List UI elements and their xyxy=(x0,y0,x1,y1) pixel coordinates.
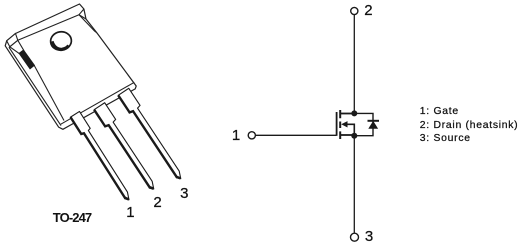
terminal 1 (gate, left circle) xyxy=(248,132,255,139)
MOSFET Q1 channel segments xyxy=(339,110,341,139)
pin label 1 (schematic gate) xyxy=(232,128,240,143)
pin label 3 (schematic source) xyxy=(365,229,373,244)
package chamfer dark facet xyxy=(19,50,34,69)
pin label 2 (schematic drain) xyxy=(364,3,372,18)
wire source vertical xyxy=(353,136,355,233)
package left bevel edge xyxy=(34,65,64,121)
package chamfer front facet xyxy=(10,40,24,53)
pin label 3 (package) xyxy=(180,186,188,201)
label TO-247 xyxy=(53,211,91,224)
pin 2 leg xyxy=(94,103,159,193)
package right step inner line xyxy=(79,15,97,33)
package top band inner edge xyxy=(18,15,79,41)
wire drain vertical xyxy=(353,15,355,114)
junction dot drain xyxy=(351,110,357,116)
MOSFET Q1 source stub xyxy=(341,134,354,136)
pin 3 leg xyxy=(118,88,186,182)
MOSFET Q1 body stub with arrow xyxy=(347,124,355,135)
package left narrow side band xyxy=(9,47,61,125)
wire gate horizontal xyxy=(256,134,337,136)
package bottom band inner edge xyxy=(61,82,135,124)
body diode D1 xyxy=(368,121,380,128)
package right step facet xyxy=(79,9,86,19)
package TO-247 body outline xyxy=(5,4,136,129)
MOSFET Q1 gate bar xyxy=(336,112,338,136)
terminal 3 (source, bottom circle) xyxy=(351,233,359,241)
MOSFET Q1 drain stub xyxy=(341,113,354,115)
pin 1 leg xyxy=(71,111,134,202)
pin label 2 (package) xyxy=(153,195,161,210)
junction dot source xyxy=(351,133,357,139)
body diode branch wires xyxy=(354,113,373,135)
legend pin functions xyxy=(420,105,519,146)
pin label 1 (package) xyxy=(126,205,134,220)
legend line 1: Gate xyxy=(420,105,519,119)
package mounting hole xyxy=(49,30,72,51)
package chamfer top facet xyxy=(7,34,18,47)
terminal 2 (drain, top circle) xyxy=(351,7,358,14)
legend line 2: Drain xyxy=(420,119,519,133)
legend line 3: Source xyxy=(420,132,519,146)
